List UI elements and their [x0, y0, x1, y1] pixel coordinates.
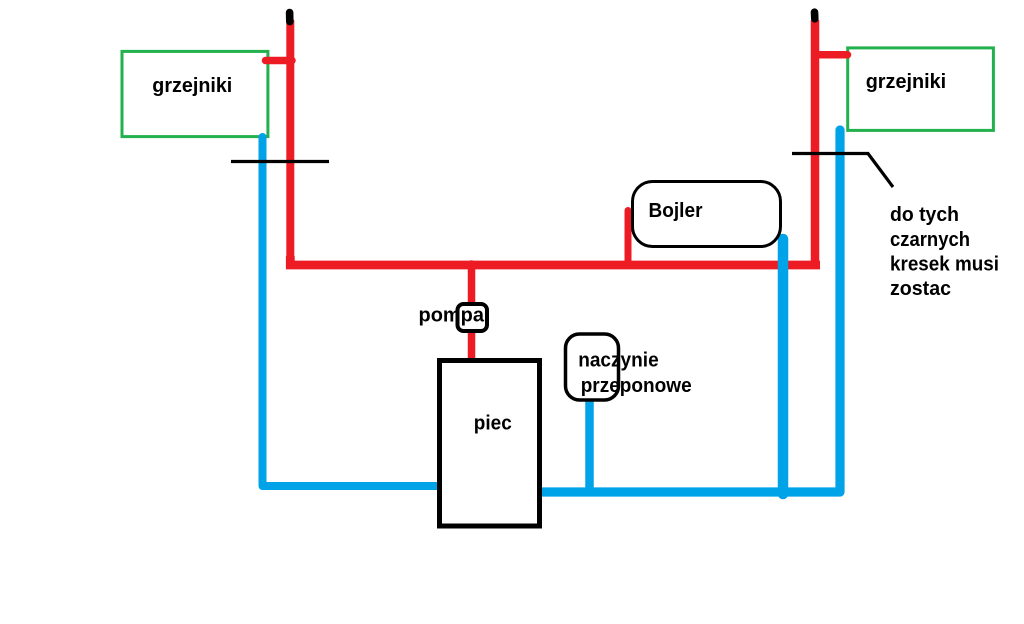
- svg-text:pompa: pompa: [419, 304, 485, 327]
- black reference line left: [231, 160, 329, 163]
- wire: red supply riser right: [811, 20, 820, 266]
- black reference line right with leader: [792, 154, 893, 188]
- wire: blue return left (vertical + bottom horizontal to piec): [263, 137, 438, 486]
- svg-text:do tych: do tych: [890, 203, 959, 226]
- Bojler box: [633, 182, 781, 247]
- svg-text:naczynie: naczynie: [578, 349, 659, 372]
- svg-text:kresek musi: kresek musi: [890, 253, 999, 276]
- wire: red stub to left radiator: [266, 57, 293, 65]
- svg-text:Bojler: Bojler: [649, 199, 703, 222]
- black valve mark on top of right riser: [811, 12, 819, 19]
- black valve mark on top of left riser: [286, 13, 294, 22]
- wire: red main horizontal supply line: [290, 256, 820, 265]
- wire: blue stub from naczynie przeponowe: [585, 400, 594, 490]
- wire: red stub to Bojler: [625, 211, 632, 263]
- svg-text:grzejniki: grzejniki: [152, 74, 232, 97]
- wire: red supply riser left: [286, 20, 294, 263]
- pompa (pump) box: [458, 304, 488, 331]
- svg-text:zostac: zostac: [890, 277, 951, 300]
- naczynie przeponowe (expansion vessel) box: [566, 334, 619, 400]
- svg-text:przeponowe: przeponowe: [581, 374, 692, 397]
- wire: blue return from Bojler: [778, 239, 789, 494]
- wire: blue return right (vertical + bottom horizontal to piec): [541, 130, 840, 492]
- radiator box left (grzejniki): [122, 51, 268, 136]
- svg-text:grzejniki: grzejniki: [866, 70, 947, 93]
- radiator box right (grzejniki): [848, 48, 994, 130]
- wire: red drop from main line through pompa to piec: [468, 264, 476, 360]
- piec (furnace) box: [440, 361, 540, 527]
- svg-text:czarnych: czarnych: [890, 228, 970, 251]
- wire: red stub to right radiator: [815, 51, 848, 59]
- svg-text:piec: piec: [474, 412, 512, 435]
